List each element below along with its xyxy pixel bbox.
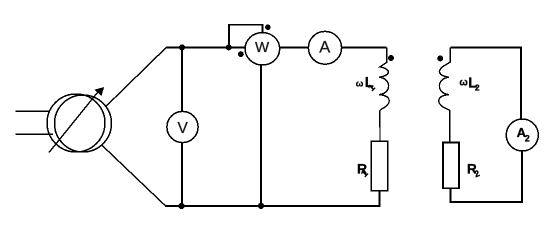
svg-text:2: 2 xyxy=(475,83,480,93)
svg-text:2: 2 xyxy=(473,168,481,179)
svg-text:W: W xyxy=(255,39,270,56)
svg-text:A: A xyxy=(319,38,330,56)
svg-text:ω: ω xyxy=(356,79,364,89)
svg-text:2: 2 xyxy=(525,133,530,143)
svg-text:V: V xyxy=(178,120,189,137)
svg-text:R: R xyxy=(357,161,367,177)
svg-text:ω: ω xyxy=(459,77,468,88)
